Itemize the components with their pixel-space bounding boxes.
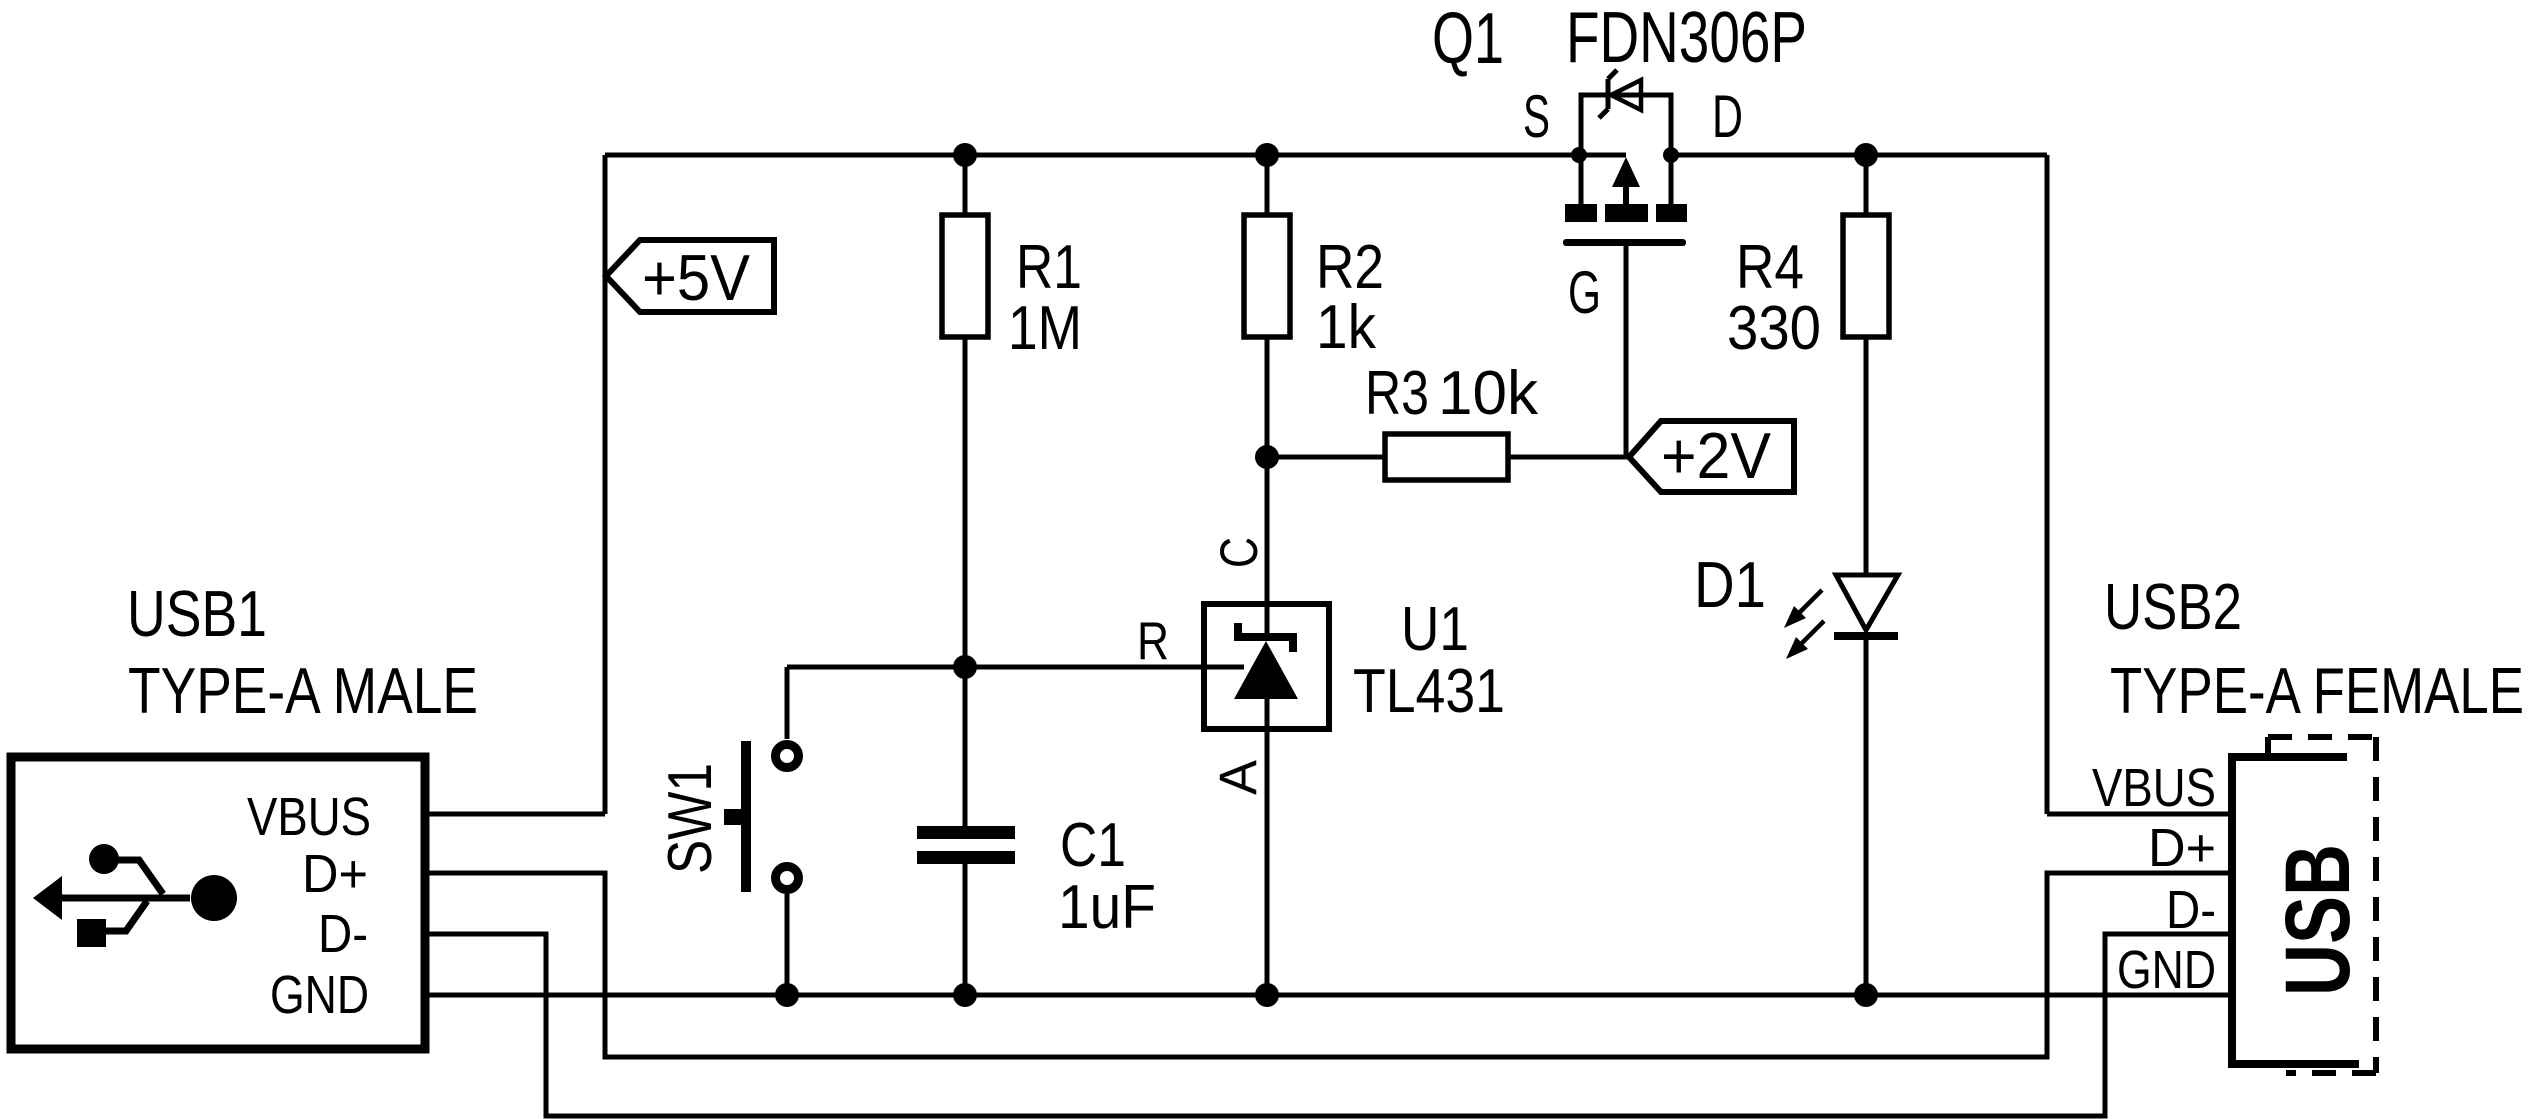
node junction D1 GND xyxy=(1854,983,1878,1007)
USB2 shield dashed right xyxy=(2373,737,2379,1073)
connector USB2 TYPE-A FEMALE xyxy=(2092,570,2524,1073)
Q1 body diode triangle xyxy=(1611,80,1641,110)
svg-text:GND: GND xyxy=(2117,940,2216,1000)
node junction C1 GND xyxy=(953,983,977,1007)
Q1 source pin dot xyxy=(1571,147,1587,163)
wire USB1 VBUS pin xyxy=(427,812,605,817)
svg-text:1uF: 1uF xyxy=(1058,873,1156,942)
Q1 drain pin dot xyxy=(1663,147,1679,163)
power flag +2V xyxy=(1629,419,1794,492)
node junction R2/R3 xyxy=(1255,445,1279,469)
wire +5V top rail right xyxy=(1671,153,2047,158)
svg-text:C: C xyxy=(1210,537,1269,568)
USB2 shield dashed left stub xyxy=(2265,737,2271,756)
svg-text:USB: USB xyxy=(2267,844,2369,996)
svg-text:TYPE-A FEMALE: TYPE-A FEMALE xyxy=(2110,654,2524,727)
switch SW1 xyxy=(656,741,799,892)
svg-text:D: D xyxy=(1712,83,1743,150)
wire +5V top rail left xyxy=(605,153,1626,158)
D1 emission arrow 1 xyxy=(1799,590,1822,613)
svg-text:1M: 1M xyxy=(1008,294,1082,363)
Q1 body diode loop xyxy=(1581,95,1671,155)
transistor Q1 FDN306P xyxy=(1432,0,1807,326)
svg-text:USB1: USB1 xyxy=(127,577,267,650)
svg-text:S: S xyxy=(1523,83,1550,150)
resistor R4 xyxy=(1727,215,1889,363)
U1 cathode Z bar xyxy=(1238,623,1293,652)
wire R2 bottom to U1 C pin xyxy=(1265,337,1270,640)
svg-text:C1: C1 xyxy=(1060,811,1126,880)
resistor R1 xyxy=(942,215,1082,363)
svg-text:+5V: +5V xyxy=(642,241,751,314)
wire C1 bottom xyxy=(963,864,968,995)
wire R2 top xyxy=(1265,155,1270,215)
svg-text:330: 330 xyxy=(1727,294,1821,363)
svg-text:Q1: Q1 xyxy=(1432,0,1504,79)
wire R4 bottom to D1 xyxy=(1864,337,1869,575)
Q1 source stub xyxy=(1579,155,1584,206)
D1 emission arrow 2 xyxy=(1801,621,1824,644)
wire USB2 VBUS pin xyxy=(2047,812,2228,817)
wire TL431 R pin xyxy=(787,665,1244,670)
svg-text:R1: R1 xyxy=(1016,233,1082,302)
USB2 shield dashed bottom xyxy=(2286,1070,2376,1076)
node junction R1/R pin xyxy=(953,655,977,679)
svg-text:GND: GND xyxy=(270,965,369,1025)
svg-text:D+: D+ xyxy=(2148,818,2216,878)
wire SW1 top xyxy=(785,667,790,739)
wire R3 right xyxy=(1508,455,1629,460)
svg-text:R: R xyxy=(1137,612,1169,671)
svg-text:D-: D- xyxy=(2166,880,2216,940)
wire Q1 gate xyxy=(1624,246,1629,457)
USB2 shield dashed top xyxy=(2268,734,2376,740)
wire R1 top xyxy=(963,155,968,215)
wire R1 bottom to C1 xyxy=(963,337,968,826)
svg-text:D+: D+ xyxy=(302,844,368,904)
node junction R2 top xyxy=(1255,143,1279,167)
IC U1 TL431 xyxy=(1137,537,1505,795)
svg-text:TL431: TL431 xyxy=(1353,657,1505,726)
node junction SW1 GND xyxy=(775,983,799,1007)
svg-text:1k: 1k xyxy=(1316,293,1377,362)
wire R4 top xyxy=(1864,155,1869,215)
Q1 substrate arrow xyxy=(1612,157,1640,187)
wire U1 A pin xyxy=(1265,699,1270,995)
wire +5V right vertical xyxy=(2045,155,2050,814)
wire R3 left xyxy=(1267,455,1385,460)
svg-text:USB2: USB2 xyxy=(2104,570,2242,643)
svg-text:+2V: +2V xyxy=(1661,419,1772,492)
node junction R4 top xyxy=(1854,143,1878,167)
Q1 drain stub xyxy=(1669,155,1674,206)
Q1 channel pads xyxy=(1565,204,1597,222)
wire GND rail xyxy=(429,993,2232,998)
Q1 gate bar xyxy=(1563,239,1686,246)
svg-text:10k: 10k xyxy=(1438,359,1539,428)
svg-text:A: A xyxy=(1209,759,1268,795)
LED D1 xyxy=(1694,548,1898,659)
USB1 logo trident xyxy=(55,895,190,902)
wire D1 cathode to GND xyxy=(1864,639,1869,995)
svg-text:R2: R2 xyxy=(1316,233,1384,302)
wire +5V left vertical xyxy=(603,155,608,814)
power flag +5V xyxy=(606,240,774,314)
capacitor C1 xyxy=(917,811,1156,942)
svg-text:R3: R3 xyxy=(1365,359,1429,428)
wire D- net xyxy=(427,934,2228,1116)
resistor R2 xyxy=(1244,215,1384,362)
svg-text:U1: U1 xyxy=(1401,595,1469,664)
svg-text:R4: R4 xyxy=(1736,233,1804,302)
svg-text:D1: D1 xyxy=(1694,548,1766,621)
resistor R3 xyxy=(1365,359,1539,480)
wire D+ net xyxy=(427,873,2228,1057)
node junction U1 GND xyxy=(1255,983,1279,1007)
Q1 body diode cathode xyxy=(1599,70,1617,118)
svg-text:D-: D- xyxy=(318,904,368,964)
connector USB1 TYPE-A MALE xyxy=(11,577,478,1049)
svg-text:VBUS: VBUS xyxy=(2092,758,2216,818)
wire SW1 bottom xyxy=(785,894,790,995)
U1 zener triangle xyxy=(1234,641,1298,699)
svg-text:SW1: SW1 xyxy=(656,763,725,874)
svg-text:VBUS: VBUS xyxy=(247,787,371,847)
svg-text:G: G xyxy=(1568,259,1601,326)
node junction R1 top xyxy=(953,143,977,167)
svg-text:FDN306P: FDN306P xyxy=(1566,0,1807,78)
svg-text:TYPE-A MALE: TYPE-A MALE xyxy=(128,654,478,727)
